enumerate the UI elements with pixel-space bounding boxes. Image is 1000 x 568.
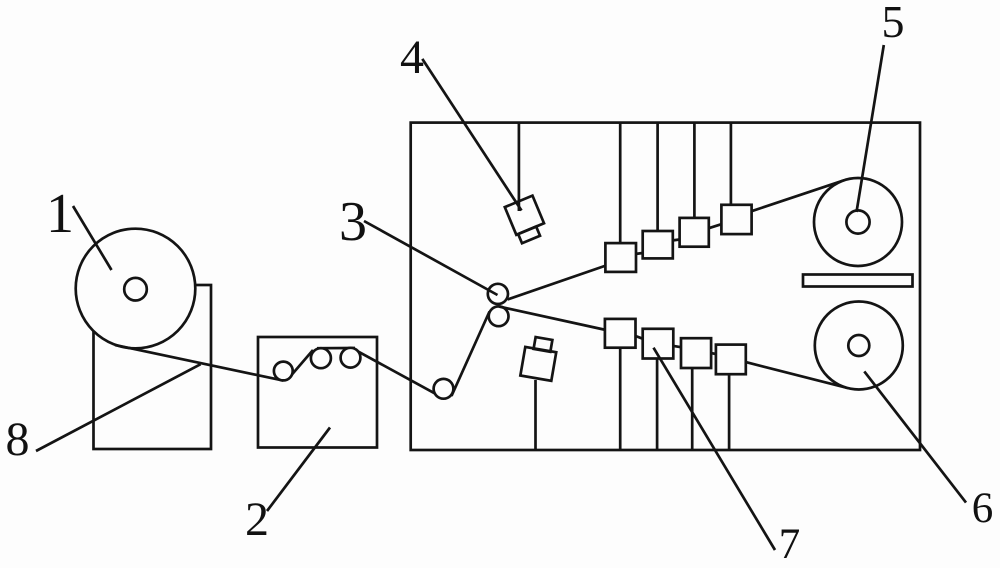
stem below square T2 [656,359,659,451]
leader line 5 [857,45,884,212]
roll 6 core [848,335,869,356]
stem of lower spray head [534,380,537,450]
web roller D up to nip roller pair [452,312,490,397]
nip roller pair 3: upper roller [488,284,508,304]
lower processing square T3 [681,338,711,368]
guide roller D (inside housing, lower left) [434,379,454,399]
svg-text:4: 4 [400,31,424,84]
svg-text:1: 1 [46,183,74,245]
stem above square S4 [730,123,733,205]
roll 1 (unwind roll) [76,229,196,349]
web over rollers B and C [317,347,355,350]
winding roll 5 [814,178,902,266]
leader line 7 [654,348,776,550]
svg-text:7: 7 [779,521,801,568]
upper processing square S1 [605,243,636,272]
leader line 3 [364,221,498,295]
lower processing square T2 [643,329,674,359]
stem below square T1 [619,348,622,450]
winding roll 6 [815,302,903,390]
leader line 4 [422,59,521,211]
web connector S3-S4 [709,224,722,228]
lower processing square T4 [716,345,746,375]
svg-text:2: 2 [245,493,269,546]
upper processing square S3 [680,218,709,247]
stem above square S1 [619,123,622,244]
web connector S2-S3 [673,238,680,242]
svg-text:8: 8 [6,413,30,466]
guide roller A [274,362,293,381]
upper web from nip to square S1 [508,266,607,300]
web from roll 1 to box 2 [115,345,283,381]
machine housing box [411,123,920,450]
leader line 2 [267,428,330,512]
upper processing square S4 [721,205,751,234]
stem below square T4 [728,374,731,450]
leader line 1 [73,206,112,270]
stem below square T3 [691,368,694,450]
svg-text:5: 5 [882,0,905,47]
svg-text:3: 3 [339,191,367,253]
web connector T1-T2 [636,336,643,339]
web roller C down to roller D [353,348,442,396]
leader line 8 [36,364,201,451]
roll 5 core [846,210,869,233]
web connector T2-T3 [673,346,681,347]
web from T4 to roll 6 [746,362,848,388]
leader line 6 [864,371,966,502]
stem above square S2 [656,123,659,231]
web connector T3-T4 [711,352,716,356]
upper processing square S2 [643,231,673,258]
guide roller B [311,348,331,368]
web roller A to roller B [289,350,314,379]
web from S4 to roll 5 [752,180,844,211]
separator bar between rolls [803,275,913,287]
box 2 (treatment tank) [258,337,377,448]
unwind stand (base under roll 1) [94,285,212,449]
roll 1 core circle [124,278,147,301]
nozzle 4 (upper spray head, tilted) [505,196,548,244]
web connector S1-S2 [636,252,643,256]
svg-text:6: 6 [972,485,994,532]
lower processing square T1 [605,319,636,348]
lower spray head (tilted, pointing up) [520,336,558,381]
nip roller pair 3: lower roller [489,306,509,326]
lower web from nip to square T1 [499,307,606,331]
stem of nozzle 4 [518,123,521,211]
stem above square S3 [693,123,696,218]
guide roller C [341,348,361,368]
